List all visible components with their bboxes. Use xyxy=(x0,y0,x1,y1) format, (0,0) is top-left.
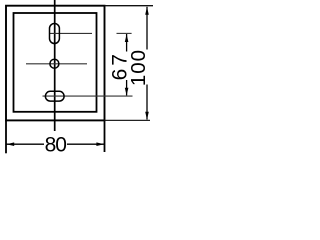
svg-text:80: 80 xyxy=(45,133,67,156)
svg-text:100: 100 xyxy=(127,49,150,86)
